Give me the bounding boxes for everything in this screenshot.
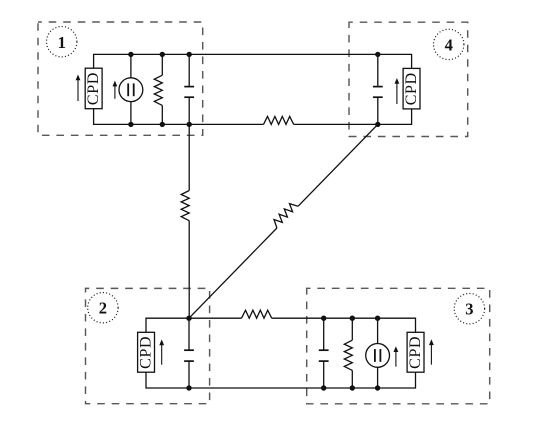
junction dot box4 bottom rail (diagonal tap) [375, 122, 380, 127]
node label 3 (dotted circle) [454, 294, 484, 324]
wire diagonal upper segment (resistor to box4 tap) [298, 124, 378, 206]
resistor between box1 and box4 (bottom rail) [264, 116, 294, 124]
current source box3 (circle with bars) [366, 344, 390, 368]
subsystem enclosure box 2 (dashed) [86, 288, 210, 403]
node label 1 (dotted circle) [47, 27, 77, 57]
capacitor box2 (vertical) [184, 318, 194, 388]
junction node box2 top rail (diagonal meet) [186, 316, 191, 321]
svg-text:CPD: CPD [407, 336, 424, 369]
wire current source box3 bottom lead [377, 367, 379, 388]
svg-text:3: 3 [465, 300, 473, 319]
subsystem enclosure box 3 (dashed) [307, 288, 490, 404]
current arrow beside CPD box1 [76, 75, 81, 102]
wire current source box1 top lead [130, 54, 132, 77]
current arrow beside source box1 [113, 81, 118, 99]
svg-text:CPD: CPD [85, 72, 102, 105]
resistor link box1 to box2 (vertical) [181, 124, 189, 318]
svg-text:2: 2 [99, 299, 107, 318]
wire lower top rail right segment (resistor to CPD box3) [272, 318, 416, 332]
resistor link box2 to box4 (diagonal) [274, 204, 298, 228]
svg-text:CPD: CPD [403, 72, 420, 105]
wire bottom rail left segment (CPD box1 to resistor) [94, 109, 264, 125]
CPD block box2 [138, 332, 155, 372]
current arrow beside source box3 [394, 346, 399, 366]
svg-text:CPD: CPD [138, 336, 155, 369]
CPD block box4 [403, 68, 420, 109]
wire diagonal lower segment (node box2 to resistor) [189, 228, 277, 318]
current arrow beside CPD box4 [395, 78, 400, 104]
wire lower top rail left segment (CPD box2 to resistor) [146, 318, 242, 332]
svg-text:1: 1 [58, 33, 66, 52]
wire lower bottom rail (CPD box2 to CPD box3) [146, 372, 416, 388]
junction dots box3 bottom rail [321, 385, 380, 390]
resistor between box2 and box3 (top rail) [242, 310, 272, 318]
capacitor box3 (vertical) [319, 318, 329, 388]
svg-text:4: 4 [445, 35, 453, 54]
capacitor box4 (vertical) [373, 54, 383, 124]
subsystem enclosure box 4 (dashed) [349, 22, 468, 136]
wire current source box1 bottom lead [130, 102, 132, 125]
junction dots box1 top rail [128, 52, 192, 57]
junction dots box3 top rail [321, 316, 380, 321]
current arrow beside CPD box2 [159, 339, 164, 364]
junction dot box2 bottom rail [186, 385, 191, 390]
wire top rail from CPD box1 to CPD box4 [94, 54, 412, 68]
resistor box1 (vertical) [154, 54, 162, 124]
node label 2 (dotted circle) [88, 293, 118, 323]
node label 4 (dotted circle) [434, 29, 464, 59]
junction dots box1 bottom rail [128, 122, 192, 127]
CPD block box1 [85, 68, 102, 109]
subsystem enclosure box 1 (dashed) [38, 22, 203, 135]
current source box1 (circle with bars) [119, 78, 143, 102]
wire current source box3 top lead [377, 318, 379, 343]
wire bottom rail right segment (resistor to CPD box4) [294, 109, 412, 125]
junction dot box4 top rail [375, 52, 380, 57]
CPD block box3 [407, 332, 424, 372]
resistor box3 (vertical) [344, 318, 352, 388]
current arrow beside CPD box3 [429, 339, 434, 364]
capacitor box1 (vertical) [184, 54, 194, 124]
